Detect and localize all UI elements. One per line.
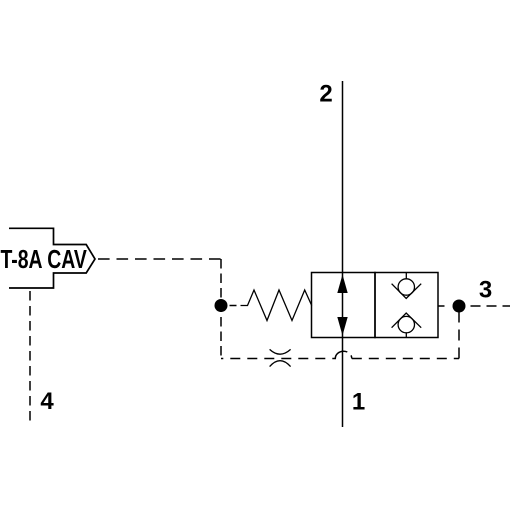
wire dash from junction to spring bbox=[230, 305, 237, 307]
pilot line bottom horizontal left part (dashed) bbox=[221, 358, 336, 360]
valve V1 right envelope (check valve box) bbox=[375, 273, 438, 338]
wire port 4 vertical (dashed) bbox=[29, 291, 31, 425]
pilot line bottom horizontal right part (dashed) bbox=[352, 358, 459, 360]
wire port 3 stub bbox=[438, 305, 445, 307]
check valve CV2 stub to box bottom bbox=[405, 333, 407, 338]
pilot line from cartridge tip (dashed horizontal) bbox=[98, 258, 221, 260]
up arrowhead in valve bbox=[337, 275, 347, 294]
spring bbox=[241, 290, 312, 321]
svg-text:2: 2 bbox=[319, 81, 332, 108]
junction dot left bbox=[215, 299, 228, 312]
orifice lower arc bbox=[270, 361, 291, 367]
junction dot right (port 3) bbox=[453, 300, 466, 313]
orifice upper arc bbox=[270, 349, 291, 354]
check valve CV1 seat bbox=[392, 284, 422, 299]
check valve CV1 ball bbox=[398, 279, 414, 295]
down arrowhead in valve bbox=[337, 317, 347, 336]
valve V1 left envelope (flow path box) bbox=[312, 273, 376, 338]
svg-text:T-8A CAV: T-8A CAV bbox=[1, 244, 88, 274]
check valve CV2 ball bbox=[398, 316, 414, 332]
check valve CV2 seat bbox=[392, 313, 422, 328]
pilot line left vertical (dashed) bbox=[220, 259, 222, 359]
check valve CV1 stub to box top bbox=[405, 273, 407, 280]
svg-text:1: 1 bbox=[352, 389, 365, 416]
pilot line right vertical (dashed) bbox=[458, 306, 460, 359]
svg-text:3: 3 bbox=[479, 277, 492, 304]
wire port 1 vertical line (arrow shaft through valve) bbox=[342, 273, 344, 428]
pilot line port 3 to edge (dashed) bbox=[471, 305, 510, 307]
cartridge cavity outline T-8A CAV bbox=[9, 228, 95, 288]
wire port 2 vertical line bbox=[342, 81, 344, 273]
wire hop over port 1 line (dashed bump) bbox=[335, 351, 352, 358]
svg-text:4: 4 bbox=[40, 388, 54, 415]
